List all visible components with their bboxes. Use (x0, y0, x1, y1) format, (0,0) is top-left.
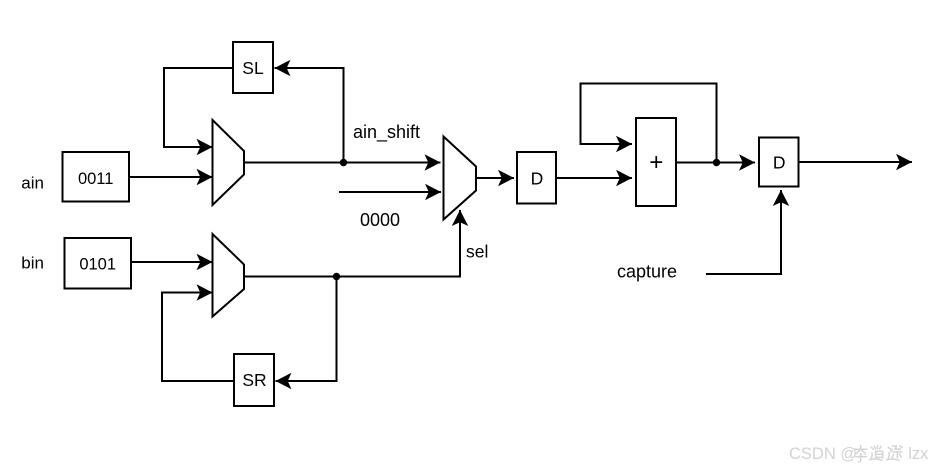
wire SR feedback: junction down into SR (276, 277, 337, 382)
node junction on ain_shift (340, 159, 347, 166)
adder U1 (636, 118, 676, 206)
register 0101 (bin input value) (65, 238, 132, 289)
wire ain_shift: mux M1 output to mux M3 input (244, 162, 441, 164)
wire adder U1 output to D2 (676, 162, 755, 164)
node junction on sel wire (333, 273, 340, 280)
wire capture into D2 (706, 190, 781, 274)
mux M3 (sel mux) (444, 137, 477, 220)
wire 0000 constant into mux M3 (339, 191, 441, 193)
svg-text:D: D (531, 169, 544, 189)
svg-text:ain_shift: ain_shift (353, 122, 420, 143)
svg-text:0000: 0000 (360, 210, 400, 230)
mux M2 (bin path) (213, 234, 245, 317)
wire adder feedback loop (581, 84, 717, 163)
svg-text:CSDN @: CSDN @ (789, 445, 857, 463)
register SR (234, 354, 274, 406)
svg-text:+: + (649, 149, 663, 176)
register D1 (517, 152, 556, 204)
svg-text:capture: capture (617, 262, 677, 282)
svg-text:0101: 0101 (79, 256, 116, 274)
svg-text:sel: sel (466, 242, 488, 262)
wire D2 output (799, 161, 913, 163)
svg-text:0011: 0011 (78, 170, 113, 188)
wire SR loop: SR output to mux M2 input (162, 293, 234, 382)
register D2 (759, 138, 799, 187)
svg-text:SL: SL (242, 58, 264, 78)
wire SL feedback: junction up into SL (275, 68, 344, 163)
watermark CSDN @lixiaoyao lzx (789, 445, 929, 463)
wire SL loop: SL output to mux M1 input (164, 68, 233, 147)
wire sel: mux M2 output to mux M3 select (244, 210, 460, 277)
wire mux M3 output to D1 (476, 177, 514, 179)
wire D1 output to adder U1 (556, 177, 632, 179)
mux M1 (ain path) (213, 120, 245, 205)
wire ain: 0011 to mux M1 (129, 176, 213, 178)
svg-text:D: D (773, 153, 786, 173)
register SL (233, 42, 273, 93)
wire bin: 0101 to mux M2 (131, 261, 213, 263)
svg-text:lzx: lzx (908, 445, 929, 463)
node junction on adder output (713, 159, 720, 166)
svg-text:bin: bin (21, 254, 44, 273)
svg-text:ain: ain (21, 174, 44, 193)
svg-text:SR: SR (242, 370, 266, 390)
register 0011 (ain input value) (63, 152, 130, 202)
